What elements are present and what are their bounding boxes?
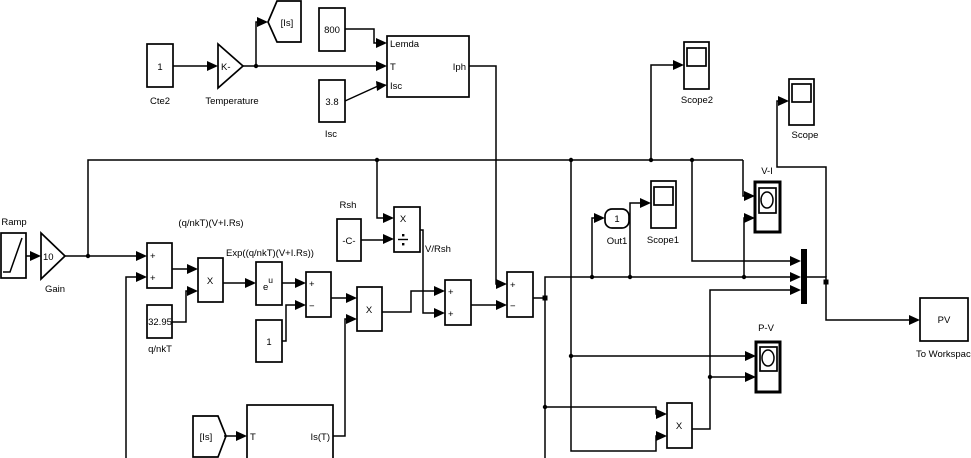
svg-text:PV: PV <box>938 315 951 326</box>
svg-text:P-V: P-V <box>758 323 775 334</box>
svg-text:+: + <box>448 287 454 298</box>
svg-text:+: + <box>448 309 454 320</box>
svg-text:10: 10 <box>43 252 54 263</box>
sum S3 <box>445 280 471 325</box>
wire V to Mux input 1 <box>692 160 801 266</box>
svg-text:X: X <box>207 276 214 287</box>
svg-text:Lemda: Lemda <box>390 39 420 50</box>
svg-text:[Is]: [Is] <box>200 432 213 443</box>
wire V line down to divide input 1 <box>377 160 394 223</box>
XY graph V-I <box>755 166 780 232</box>
product X2 <box>357 287 382 331</box>
svg-text:Isc: Isc <box>390 81 402 92</box>
constant 32.95 q/nkT <box>147 305 172 355</box>
wire to Scope1 <box>630 198 651 277</box>
wire Is(T) up to product X2 input 2 <box>333 314 357 436</box>
wire current down to bottom edge <box>543 298 547 458</box>
svg-text:T: T <box>390 62 396 73</box>
svg-text:Gain: Gain <box>45 284 65 295</box>
wire sum S1 to product X1 <box>172 264 198 274</box>
svg-text:Cte2: Cte2 <box>150 96 170 107</box>
svg-text:Out1: Out1 <box>607 236 628 247</box>
svg-text:Scope2: Scope2 <box>681 95 713 106</box>
product X1 <box>198 258 223 302</box>
wire to Out1 <box>592 213 605 277</box>
XY graph P-V <box>756 323 780 392</box>
svg-text:[Is]: [Is] <box>281 18 294 29</box>
wire product X1 to exp <box>223 278 256 288</box>
outport Out1 <box>605 209 629 247</box>
wire divide to sum S3 input 2 <box>420 230 445 318</box>
svg-text:Scope: Scope <box>792 130 819 141</box>
svg-text:Is(T): Is(T) <box>310 432 330 443</box>
wire sum S4 output current node <box>533 272 801 301</box>
wire power branch to P-V input 2 <box>710 372 756 382</box>
wire -C- to divide input 2 <box>361 234 394 244</box>
wire from tag to subsystem U2 <box>224 431 247 441</box>
wire feedback into sum S1 input 2 <box>126 272 147 458</box>
wire Mux output to To Workspace <box>807 277 920 325</box>
gain Temperature <box>205 44 258 107</box>
goto tag [Is] <box>268 1 301 42</box>
svg-text:1: 1 <box>266 337 271 348</box>
scope Scope1 <box>647 181 679 246</box>
from tag [Is] bottom <box>193 416 226 457</box>
svg-text:Scope1: Scope1 <box>647 235 679 246</box>
svg-text:X: X <box>366 305 373 316</box>
wire sum S3 to sum S4 minus <box>471 300 507 310</box>
svg-text:V-I: V-I <box>761 166 773 177</box>
svg-text:Temperature: Temperature <box>205 96 258 107</box>
svg-text:1: 1 <box>614 214 619 225</box>
svg-text:(q/nkT)(V+I.Rs): (q/nkT)(V+I.Rs) <box>178 218 243 229</box>
scope Scope <box>789 79 818 141</box>
svg-text:Ramp: Ramp <box>1 217 26 228</box>
wire current up to V-I input 2 <box>744 213 755 277</box>
wire constant 1 to sum S2 minus <box>282 300 306 341</box>
wire to Scope2 <box>651 60 684 160</box>
svg-text:−: − <box>309 301 315 312</box>
svg-text:Iph: Iph <box>453 62 466 73</box>
svg-text:T: T <box>250 432 256 443</box>
scope Scope2 <box>681 42 713 106</box>
svg-text:Isc: Isc <box>325 129 337 140</box>
constant Cte2 <box>147 44 173 107</box>
constant Rsh -C- <box>337 200 361 261</box>
svg-text:+: + <box>510 280 516 291</box>
to workspace PV <box>916 298 971 360</box>
wire 32.95 to product X1 input 2 <box>172 286 198 322</box>
svg-text:X: X <box>676 421 683 432</box>
svg-text:3.8: 3.8 <box>325 97 338 108</box>
product X3 <box>667 403 692 448</box>
wire Temperature to T input <box>243 61 387 71</box>
svg-text:X: X <box>400 214 407 225</box>
wire Gain to sum S1 input 1 <box>65 251 147 261</box>
wire branch up to goto [Is] <box>256 17 268 66</box>
wire sum S2 to product X2 <box>331 293 357 303</box>
wire X3 output to Mux input 3 and P-V input 2 <box>692 285 801 429</box>
wire Cte2 to Temperature <box>173 61 218 71</box>
constant 3.8 <box>319 80 345 140</box>
svg-text:32.95: 32.95 <box>148 317 172 328</box>
gain Gain 10 <box>41 233 65 295</box>
svg-text:+: + <box>150 273 156 284</box>
wire Iph to sum S4 plus <box>469 66 507 289</box>
wire 800 to Lemda <box>345 29 387 48</box>
svg-text:K-: K- <box>221 62 231 73</box>
svg-text:q/nkT: q/nkT <box>148 344 172 355</box>
mux Mux <box>801 249 807 304</box>
subsystem U2 Is(T) <box>247 405 333 458</box>
svg-text:+: + <box>150 251 156 262</box>
svg-text:Exp((q/nkT)(V+I.Rs)): Exp((q/nkT)(V+I.Rs)) <box>226 248 314 259</box>
divide block V/Rsh <box>394 207 420 252</box>
sum S1 <box>147 243 172 288</box>
wire 3.8 to Isc input <box>345 81 387 101</box>
constant 800 <box>319 8 345 51</box>
wire V line down branch x571 <box>569 160 667 451</box>
sum S2 <box>306 272 331 317</box>
svg-text:−: − <box>510 301 516 312</box>
wire V to XY graph V-I input 1 <box>743 160 755 201</box>
wire exp to sum S2 plus <box>282 278 306 288</box>
wire Ramp to Gain <box>26 251 41 261</box>
wire current branch to product X3 input 1 <box>545 407 667 419</box>
sum S4 <box>507 272 533 317</box>
constant 1 <box>256 320 282 362</box>
ramp source Ramp <box>1 217 27 278</box>
svg-text:Rsh: Rsh <box>340 200 357 211</box>
svg-text:V/Rsh: V/Rsh <box>425 244 451 255</box>
svg-text:800: 800 <box>324 25 340 36</box>
math function exp e^u <box>256 262 282 305</box>
svg-text:-C-: -C- <box>342 236 355 247</box>
svg-text:+: + <box>309 279 315 290</box>
svg-text:1: 1 <box>157 62 162 73</box>
wire V branch to P-V input 1 <box>571 351 756 361</box>
subsystem U1 Lemda/T/Isc to Iph <box>387 36 469 97</box>
wire V distribution line top <box>88 158 743 256</box>
svg-text:To Workspace: To Workspace <box>916 349 971 360</box>
wire Mux output branch up to Scope <box>777 96 826 277</box>
wire product X2 to sum S3 input 1 <box>382 286 445 312</box>
